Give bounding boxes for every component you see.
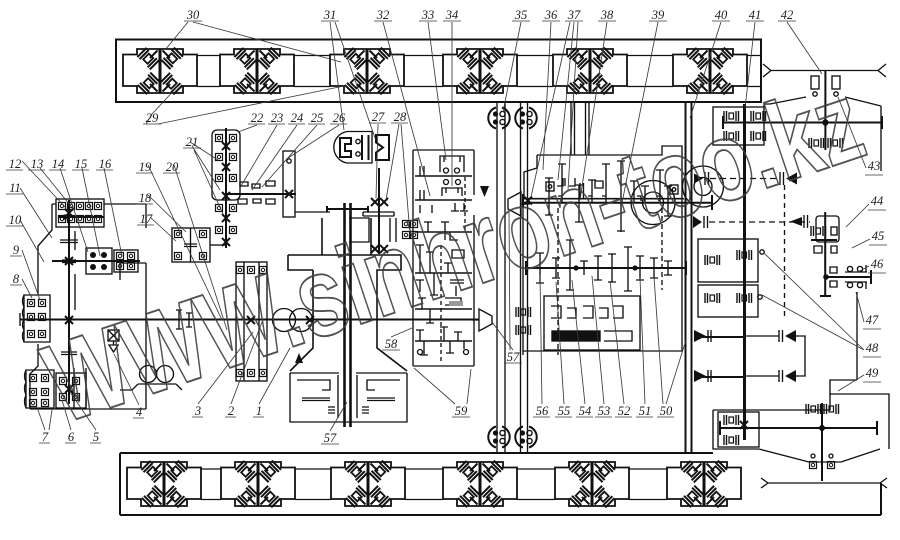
lower cluster box — [516, 296, 640, 350]
funnel right of column — [472, 309, 492, 331]
svg-text:45: 45 — [872, 229, 885, 243]
svg-text:26: 26 — [333, 111, 346, 125]
speed box shaft B — [526, 267, 686, 269]
item 4 solenoid — [108, 330, 119, 352]
svg-text:47: 47 — [866, 313, 879, 327]
svg-text:49: 49 — [866, 366, 879, 380]
svg-text:20: 20 — [166, 160, 179, 174]
slide combs — [349, 218, 396, 242]
svg-text:51: 51 — [639, 404, 652, 418]
gear circles on main shaft — [273, 309, 296, 332]
wavy bearing block 9 — [23, 295, 51, 342]
idler circles — [140, 366, 157, 383]
shaft x822 bottom — [821, 403, 823, 481]
gearbox 17/18 — [172, 228, 226, 262]
svg-text:41: 41 — [749, 8, 762, 22]
housing outline — [30, 204, 146, 409]
svg-text:1: 1 — [256, 404, 262, 418]
svg-text:28: 28 — [394, 110, 407, 124]
svg-text:19: 19 — [139, 160, 152, 174]
svg-text:59: 59 — [455, 404, 468, 418]
top box — [713, 107, 764, 145]
top box 11-16 — [56, 199, 104, 227]
svg-text:13: 13 — [31, 157, 44, 171]
speed box shaft A — [523, 198, 684, 200]
svg-text:54: 54 — [579, 404, 592, 418]
horizontal bold shaft y428 — [720, 427, 877, 429]
svg-text:57: 57 — [324, 431, 337, 445]
svg-text:9: 9 — [13, 243, 20, 257]
svg-text:22: 22 — [251, 111, 264, 125]
svg-text:12: 12 — [9, 157, 22, 171]
svg-text:39: 39 — [651, 8, 665, 22]
main feed shaft I — [20, 319, 479, 321]
svg-text:2: 2 — [228, 404, 234, 418]
svg-text:33: 33 — [421, 8, 435, 22]
svg-text:30: 30 — [186, 8, 200, 22]
svg-text:48: 48 — [866, 341, 879, 355]
svg-text:10: 10 — [9, 213, 22, 227]
svg-text:24: 24 — [291, 111, 304, 125]
top cluster glyphs — [546, 178, 603, 198]
lower box 5/6 — [56, 373, 86, 408]
svg-text:8: 8 — [13, 272, 20, 286]
mid cluster — [52, 260, 140, 262]
funnel 57b pointing left — [508, 192, 530, 216]
left plate — [236, 262, 267, 381]
svg-text:17: 17 — [140, 212, 153, 226]
circles on shaft A — [631, 181, 675, 225]
svg-text:7: 7 — [42, 430, 49, 444]
svg-text:29: 29 — [146, 111, 159, 125]
svg-text:14: 14 — [52, 157, 65, 171]
svg-text:42: 42 — [781, 8, 794, 22]
svg-text:25: 25 — [311, 111, 324, 125]
svg-text:44: 44 — [871, 194, 884, 208]
verticals to band — [571, 102, 589, 155]
svg-text:18: 18 — [139, 191, 152, 205]
svg-text:31: 31 — [323, 8, 337, 22]
horizontal shaft of cluster — [226, 193, 296, 195]
svg-text:40: 40 — [715, 8, 728, 22]
svg-text:27: 27 — [372, 110, 385, 124]
svg-text:46: 46 — [871, 257, 884, 271]
svg-text:15: 15 — [75, 157, 88, 171]
wavy bearing block 7 lower — [25, 370, 55, 408]
svg-text:11: 11 — [9, 181, 21, 195]
svg-text:37: 37 — [567, 8, 581, 22]
bottom housing — [713, 394, 889, 462]
svg-text:36: 36 — [544, 8, 558, 22]
vertical shaft — [68, 200, 70, 404]
box outline — [523, 146, 682, 355]
svg-text:23: 23 — [271, 111, 284, 125]
svg-text:3: 3 — [194, 404, 201, 418]
right plate — [283, 151, 295, 217]
svg-text:16: 16 — [99, 157, 112, 171]
L2 clutch dashed — [693, 216, 702, 228]
svg-text:52: 52 — [618, 404, 631, 418]
svg-text:38: 38 — [600, 8, 614, 22]
svg-text:53: 53 — [598, 404, 611, 418]
gear boxes mid — [698, 239, 758, 282]
svg-text:57: 57 — [507, 350, 520, 364]
svg-text:34: 34 — [445, 8, 459, 22]
svg-text:55: 55 — [558, 404, 571, 418]
shaft 27/28 — [378, 168, 380, 254]
svg-text:50: 50 — [660, 404, 673, 418]
svg-text:56: 56 — [536, 404, 549, 418]
vertical drive shaft to drum — [743, 104, 746, 440]
svg-text:32: 32 — [376, 8, 390, 22]
comb box bottom — [290, 373, 407, 422]
svg-text:35: 35 — [514, 8, 528, 22]
svg-text:21: 21 — [186, 135, 199, 149]
bearing cluster right — [403, 221, 410, 228]
watermark — [30, 57, 878, 447]
